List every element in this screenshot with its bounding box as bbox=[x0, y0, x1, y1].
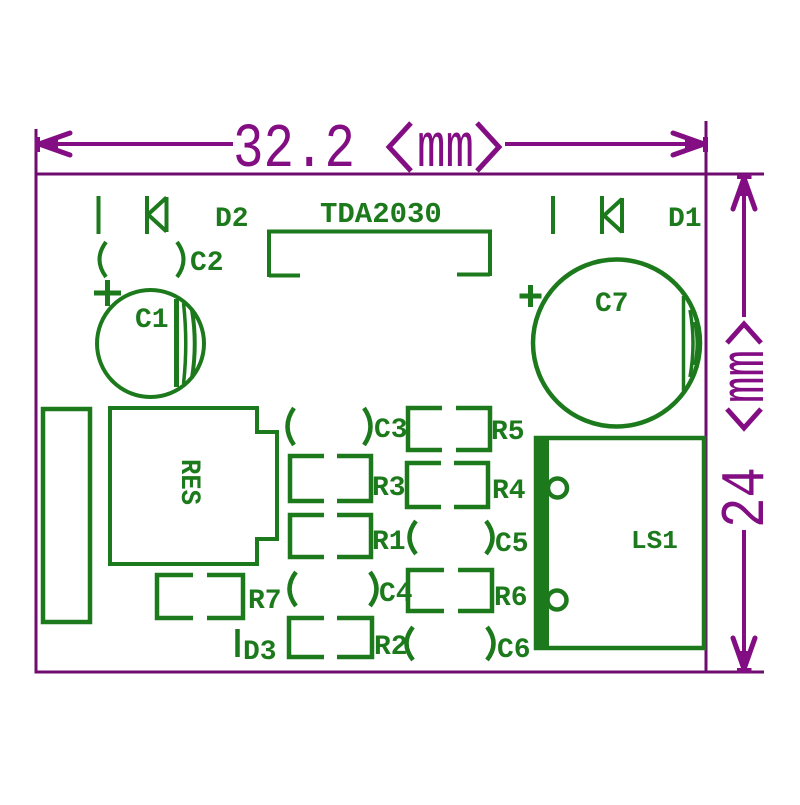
svg-text:C6: C6 bbox=[497, 635, 531, 666]
svg-text:D1: D1 bbox=[668, 204, 702, 235]
svg-text:R7: R7 bbox=[248, 586, 282, 617]
svg-text:TDA2030: TDA2030 bbox=[320, 198, 442, 231]
svg-text:R2: R2 bbox=[374, 632, 408, 663]
svg-text:LS1: LS1 bbox=[631, 526, 678, 556]
svg-text:C7: C7 bbox=[595, 289, 629, 320]
svg-text:R5: R5 bbox=[491, 417, 525, 448]
svg-text:RES: RES bbox=[173, 459, 204, 505]
svg-text:D3: D3 bbox=[243, 637, 277, 668]
svg-text:C4: C4 bbox=[379, 579, 413, 610]
svg-text:C2: C2 bbox=[190, 248, 224, 279]
svg-text:C5: C5 bbox=[495, 529, 529, 560]
svg-text:R6: R6 bbox=[494, 583, 528, 614]
svg-text:D2: D2 bbox=[215, 204, 249, 235]
svg-text:R4: R4 bbox=[492, 476, 526, 507]
svg-text:R3: R3 bbox=[372, 473, 406, 504]
svg-text:32.2: 32.2 bbox=[233, 114, 355, 185]
svg-text:mm: mm bbox=[711, 350, 782, 403]
svg-text:C3: C3 bbox=[374, 415, 408, 446]
svg-text:R1: R1 bbox=[372, 527, 406, 558]
svg-text:24: 24 bbox=[711, 467, 782, 528]
svg-text:mm: mm bbox=[417, 114, 474, 185]
svg-text:C1: C1 bbox=[135, 305, 169, 336]
